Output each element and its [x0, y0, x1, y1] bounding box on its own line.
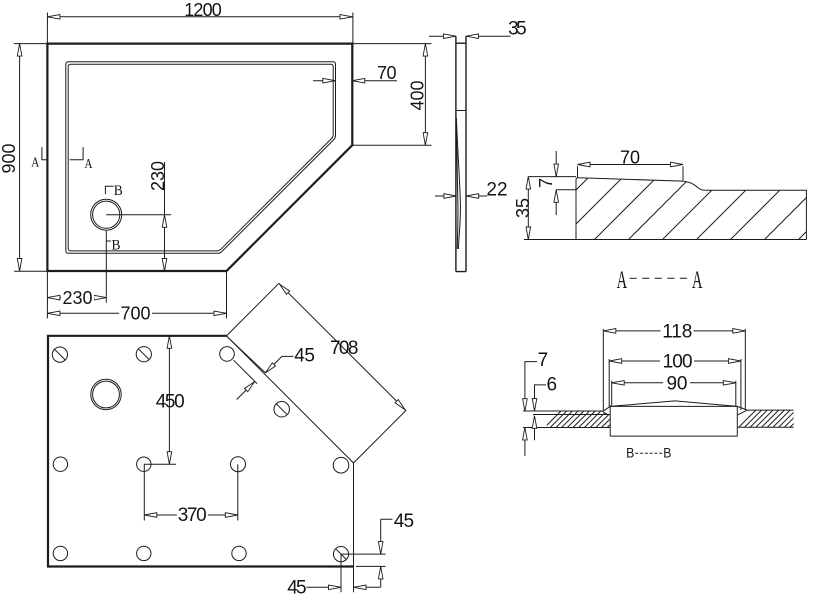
- dimension 45 horizontal right arrow: [354, 586, 381, 588]
- bottom view diagonal and right edge (thin): [226, 336, 353, 567]
- section B cut mark upper: [105, 186, 113, 194]
- dimension 7 (B-B) lower arrow: [524, 427, 526, 456]
- section B cut mark lower: [106, 240, 111, 242]
- drain recess box right edge: [736, 407, 738, 437]
- svg-text:118: 118: [662, 322, 692, 343]
- svg-text:B: B: [114, 183, 123, 199]
- screw hole top-left: [52, 347, 67, 362]
- svg-text:A: A: [617, 265, 628, 294]
- section A-A bottom line (extends left as ext line): [524, 239, 806, 241]
- svg-text:70: 70: [377, 63, 397, 83]
- flange rectangle (diagonal panel): [226, 283, 406, 463]
- side profile divider line: [456, 110, 466, 112]
- plain hole right corner: [333, 457, 349, 473]
- dimension 370 text: [177, 508, 208, 523]
- svg-text:B: B: [663, 446, 671, 461]
- svg-text:70: 70: [620, 147, 640, 167]
- svg-text:35: 35: [508, 19, 527, 40]
- tray rim outline inner: [68, 64, 333, 251]
- svg-text:35: 35: [513, 198, 533, 218]
- dimension 7 upper arrow: [555, 151, 557, 177]
- dimension 400 line: [424, 44, 426, 146]
- left band second line: [533, 414, 607, 416]
- drain center vertical ext line: [105, 231, 107, 303]
- dimension 70 (section) ext lines: [578, 166, 684, 180]
- dimension 100 line: [609, 360, 741, 362]
- drain circle outer (bottom): [91, 379, 121, 409]
- drain circle outer (plan): [91, 199, 122, 230]
- bottom view outline (pentagon): [48, 336, 354, 567]
- dimension 450 line: [168, 336, 170, 464]
- svg-text:7: 7: [538, 350, 549, 371]
- right band hatching: [736, 410, 813, 430]
- screw hole on diagonal edge: [274, 401, 290, 417]
- drain center horizontal ext line: [106, 214, 171, 216]
- svg-text:450: 450: [156, 392, 185, 413]
- svg-text:400: 400: [408, 80, 428, 110]
- 45 flange leader upper arrow and bent leader: [265, 356, 293, 373]
- 45 flange hole ext line (parallel to edge): [234, 360, 257, 383]
- dimension 400 ext lines: [352, 44, 431, 146]
- dimension 118 line: [603, 330, 745, 332]
- svg-text:700: 700: [120, 304, 150, 324]
- dimension 45 horizontal ext lines: [341, 554, 354, 592]
- dimension 900 line: [19, 44, 21, 271]
- svg-text:22: 22: [486, 180, 507, 201]
- dimension 7 (B-B) bracket and line: [525, 362, 537, 412]
- dimension 35 line left arrow: [429, 35, 456, 37]
- dimension 90 text: [663, 376, 690, 391]
- svg-text:230: 230: [62, 288, 92, 308]
- dimension 70 rim width line right arrow: [352, 80, 397, 82]
- dimension 90 line: [612, 382, 736, 384]
- section A-A hatching: [521, 174, 821, 245]
- plain hole near diagonal top: [220, 347, 235, 362]
- dimension 118 ext lines: [603, 329, 745, 411]
- plain hole bottom-right-inner: [232, 546, 246, 560]
- dimension 450 ext line from hole: [144, 463, 176, 465]
- drain circle inner (bottom): [93, 381, 120, 408]
- dimension 708 arrows on rect side: [280, 284, 290, 294]
- right band chamfer: [738, 410, 748, 415]
- dimension 700 text: [119, 306, 152, 321]
- plain hole mid-left: [53, 457, 67, 471]
- svg-text:A: A: [692, 265, 703, 294]
- dimension 35 line right arrow: [466, 35, 511, 37]
- svg-text:B: B: [626, 446, 634, 461]
- dimension 700 line: [47, 312, 226, 314]
- dimension 1200 ext lines: [47, 13, 353, 44]
- dimension 45 vertical lower arrow: [380, 566, 382, 587]
- drain recess box left edge: [609, 405, 611, 436]
- dimension 230 bottom ext line left: [46, 272, 48, 319]
- screw hole top-middle: [136, 347, 151, 362]
- tray outer outline (pentagon): [47, 44, 352, 271]
- dimension 100 ext lines: [609, 359, 741, 410]
- section label B---B dashes: [635, 452, 662, 454]
- svg-text:45: 45: [287, 578, 306, 599]
- side profile outline: [456, 36, 466, 271]
- screw hole bottom-right corner: [333, 547, 348, 562]
- tray rim outline outer: [66, 62, 336, 254]
- dimension 6 bracket and line: [535, 385, 547, 411]
- dimension 7 lower arrow: [555, 190, 557, 215]
- side profile bowl curve outer: [456, 118, 460, 249]
- flange plate line: [603, 406, 747, 411]
- dimension 35 (section) line: [527, 177, 529, 240]
- svg-text:900: 900: [0, 143, 19, 173]
- left band hatching: [542, 410, 630, 430]
- section A-A outline: [576, 178, 806, 240]
- left band top line with ext: [523, 411, 610, 415]
- dimension 370 line: [144, 514, 238, 516]
- dimension 1200 line: [47, 16, 352, 18]
- svg-text:A: A: [85, 157, 94, 172]
- right band top line: [747, 409, 793, 411]
- plain hole mid-right: [231, 457, 246, 472]
- svg-text:6: 6: [547, 374, 558, 395]
- dimension 70 rim width line left arrow: [313, 80, 335, 82]
- dimension 22 line right arrow: [466, 195, 487, 197]
- dimension 118 text: [661, 324, 694, 339]
- svg-text:370: 370: [178, 505, 207, 526]
- plain hole mid-center: [137, 457, 151, 471]
- plain hole bottom-center: [137, 546, 151, 560]
- dimension 45 vertical ext lines: [341, 554, 386, 566]
- svg-text:A: A: [31, 156, 40, 171]
- dimension 900 ext lines: [14, 44, 47, 272]
- dimension 230 vertical line (plan): [164, 162, 166, 271]
- svg-text:100: 100: [663, 352, 693, 373]
- svg-text:230: 230: [148, 161, 168, 191]
- svg-text:708: 708: [330, 338, 359, 359]
- dimension 90 ext lines: [612, 381, 736, 406]
- dimension 45 horizontal left arrow: [307, 586, 342, 588]
- svg-text:7: 7: [536, 178, 556, 188]
- dimension 6 lower arrow: [534, 416, 536, 441]
- svg-text:90: 90: [667, 374, 688, 395]
- dimension 22 line left arrow: [435, 195, 456, 197]
- section label A---A dashes: [630, 277, 691, 279]
- svg-text:45: 45: [394, 511, 414, 532]
- 45 flange leader: thick overlay segment on diagonal edge: [226, 336, 265, 373]
- svg-text:45: 45: [294, 346, 315, 367]
- dimension 230 bottom line: [47, 297, 106, 299]
- side profile bowl curve inner: [456, 118, 458, 249]
- section A cut mark left: [42, 147, 47, 160]
- drain dome: [610, 401, 737, 407]
- dimension 70 (section) line: [578, 164, 684, 166]
- drain circle inner (plan): [93, 201, 120, 228]
- dimension 370 ext lines: [144, 464, 238, 520]
- svg-text:1200: 1200: [184, 0, 222, 20]
- left band bottom line with ext: [523, 427, 610, 429]
- right band bottom line: [738, 426, 794, 428]
- svg-text:B: B: [112, 238, 121, 254]
- drain recess box bottom: [610, 435, 737, 437]
- dimension 230 bottom text: [61, 290, 94, 305]
- dimension 45 vertical upper arrow with bracket to text: [381, 519, 393, 554]
- dimension 7 ext lines: [528, 177, 576, 190]
- plain hole bottom-left: [53, 546, 67, 560]
- dimension 100 text: [660, 354, 694, 369]
- 45 flange lower arrow: [237, 382, 255, 400]
- dimension 700 ext line right: [226, 272, 228, 319]
- section A cut mark right: [70, 147, 83, 160]
